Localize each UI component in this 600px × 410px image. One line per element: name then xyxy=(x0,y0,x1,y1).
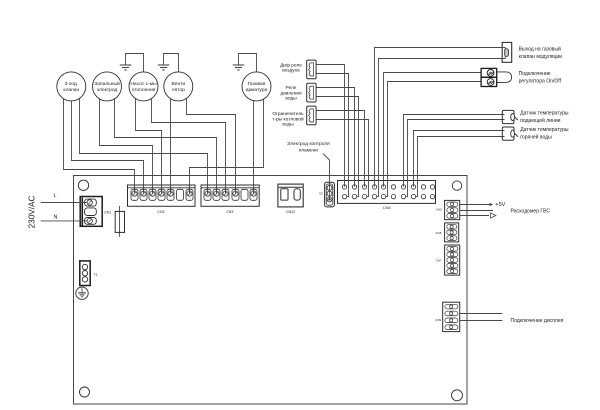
svg-text:CN2: CN2 xyxy=(157,210,164,214)
svg-text:L: L xyxy=(54,193,57,199)
svg-text:подающей линии: подающей линии xyxy=(520,117,560,124)
svg-text:лятор: лятор xyxy=(172,88,185,93)
svg-text:T2: T2 xyxy=(319,192,323,196)
svg-text:Запальный: Запальный xyxy=(94,80,120,87)
svg-text:CN8: CN8 xyxy=(435,231,441,235)
svg-text:отопления: отопления xyxy=(132,88,156,93)
svg-text:пламени: пламени xyxy=(299,149,319,154)
svg-text:Диф реле: Диф реле xyxy=(280,62,302,68)
svg-text:клапан модуляции: клапан модуляции xyxy=(519,54,563,60)
svg-text:Подключение дисплея: Подключение дисплея xyxy=(511,318,564,324)
svg-text:электрод: электрод xyxy=(97,88,118,93)
svg-text:CN7: CN7 xyxy=(436,258,442,262)
svg-text:Датчик температуры: Датчик температуры xyxy=(520,127,569,133)
svg-text:воды: воды xyxy=(282,123,294,128)
svg-text:CN5: CN5 xyxy=(436,207,442,211)
svg-text:CN9: CN9 xyxy=(435,318,441,322)
svg-text:Газовая: Газовая xyxy=(248,81,266,87)
svg-text:Выход на газовый: Выход на газовый xyxy=(519,46,561,53)
svg-text:воды: воды xyxy=(285,97,297,102)
svg-text:Расходомер ГВС: Расходомер ГВС xyxy=(511,208,551,214)
svg-text:горячей воды: горячей воды xyxy=(520,133,552,140)
svg-text:Венти: Венти xyxy=(171,81,185,87)
svg-text:230V/AC: 230V/AC xyxy=(28,196,37,229)
svg-text:+5V: +5V xyxy=(495,202,505,208)
svg-text:регулятора On/Off: регулятора On/Off xyxy=(519,78,562,84)
svg-text:т-ры котловой: т-ры котловой xyxy=(272,115,304,122)
svg-text:арматура: арматура xyxy=(246,88,268,93)
svg-text:Электрод контроля: Электрод контроля xyxy=(287,141,330,147)
svg-text:Реле: Реле xyxy=(286,85,297,91)
svg-text:Ограничитель: Ограничитель xyxy=(272,111,304,117)
svg-text:Насос с-мы: Насос с-мы xyxy=(130,81,157,87)
svg-text:N: N xyxy=(54,215,58,221)
svg-text:T1: T1 xyxy=(94,273,98,277)
svg-text:CN4: CN4 xyxy=(383,205,392,210)
svg-text:3-ход.: 3-ход. xyxy=(65,81,79,87)
svg-text:клапан: клапан xyxy=(63,88,79,93)
svg-text:CN1: CN1 xyxy=(104,210,111,214)
svg-text:Подключение: Подключение xyxy=(519,71,551,77)
svg-text:CN3: CN3 xyxy=(226,210,233,214)
svg-text:CN12: CN12 xyxy=(286,210,295,214)
svg-text:воздуха: воздуха xyxy=(282,69,300,74)
svg-text:Датчик температуры: Датчик температуры xyxy=(520,111,569,117)
